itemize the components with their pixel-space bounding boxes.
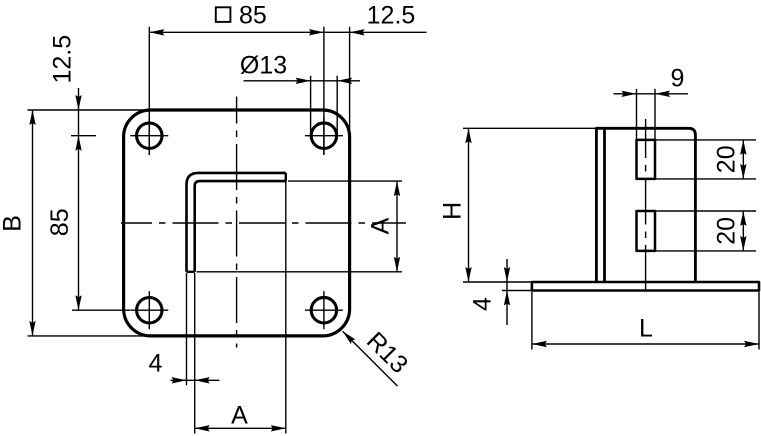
svg-text:B: B bbox=[0, 215, 27, 232]
svg-text:20: 20 bbox=[713, 145, 741, 173]
svg-text:A: A bbox=[231, 402, 248, 430]
svg-text:A: A bbox=[367, 217, 395, 234]
svg-text:85: 85 bbox=[46, 208, 74, 236]
svg-text:9: 9 bbox=[671, 65, 685, 93]
svg-text:12.5: 12.5 bbox=[367, 1, 416, 29]
svg-text:4: 4 bbox=[469, 297, 497, 311]
svg-text:85: 85 bbox=[239, 1, 267, 29]
svg-text:20: 20 bbox=[713, 217, 741, 245]
svg-text:H: H bbox=[439, 202, 467, 220]
svg-text:Ø13: Ø13 bbox=[240, 51, 287, 79]
svg-text:12.5: 12.5 bbox=[49, 35, 77, 84]
svg-text:L: L bbox=[639, 315, 653, 343]
svg-text:4: 4 bbox=[149, 350, 163, 378]
